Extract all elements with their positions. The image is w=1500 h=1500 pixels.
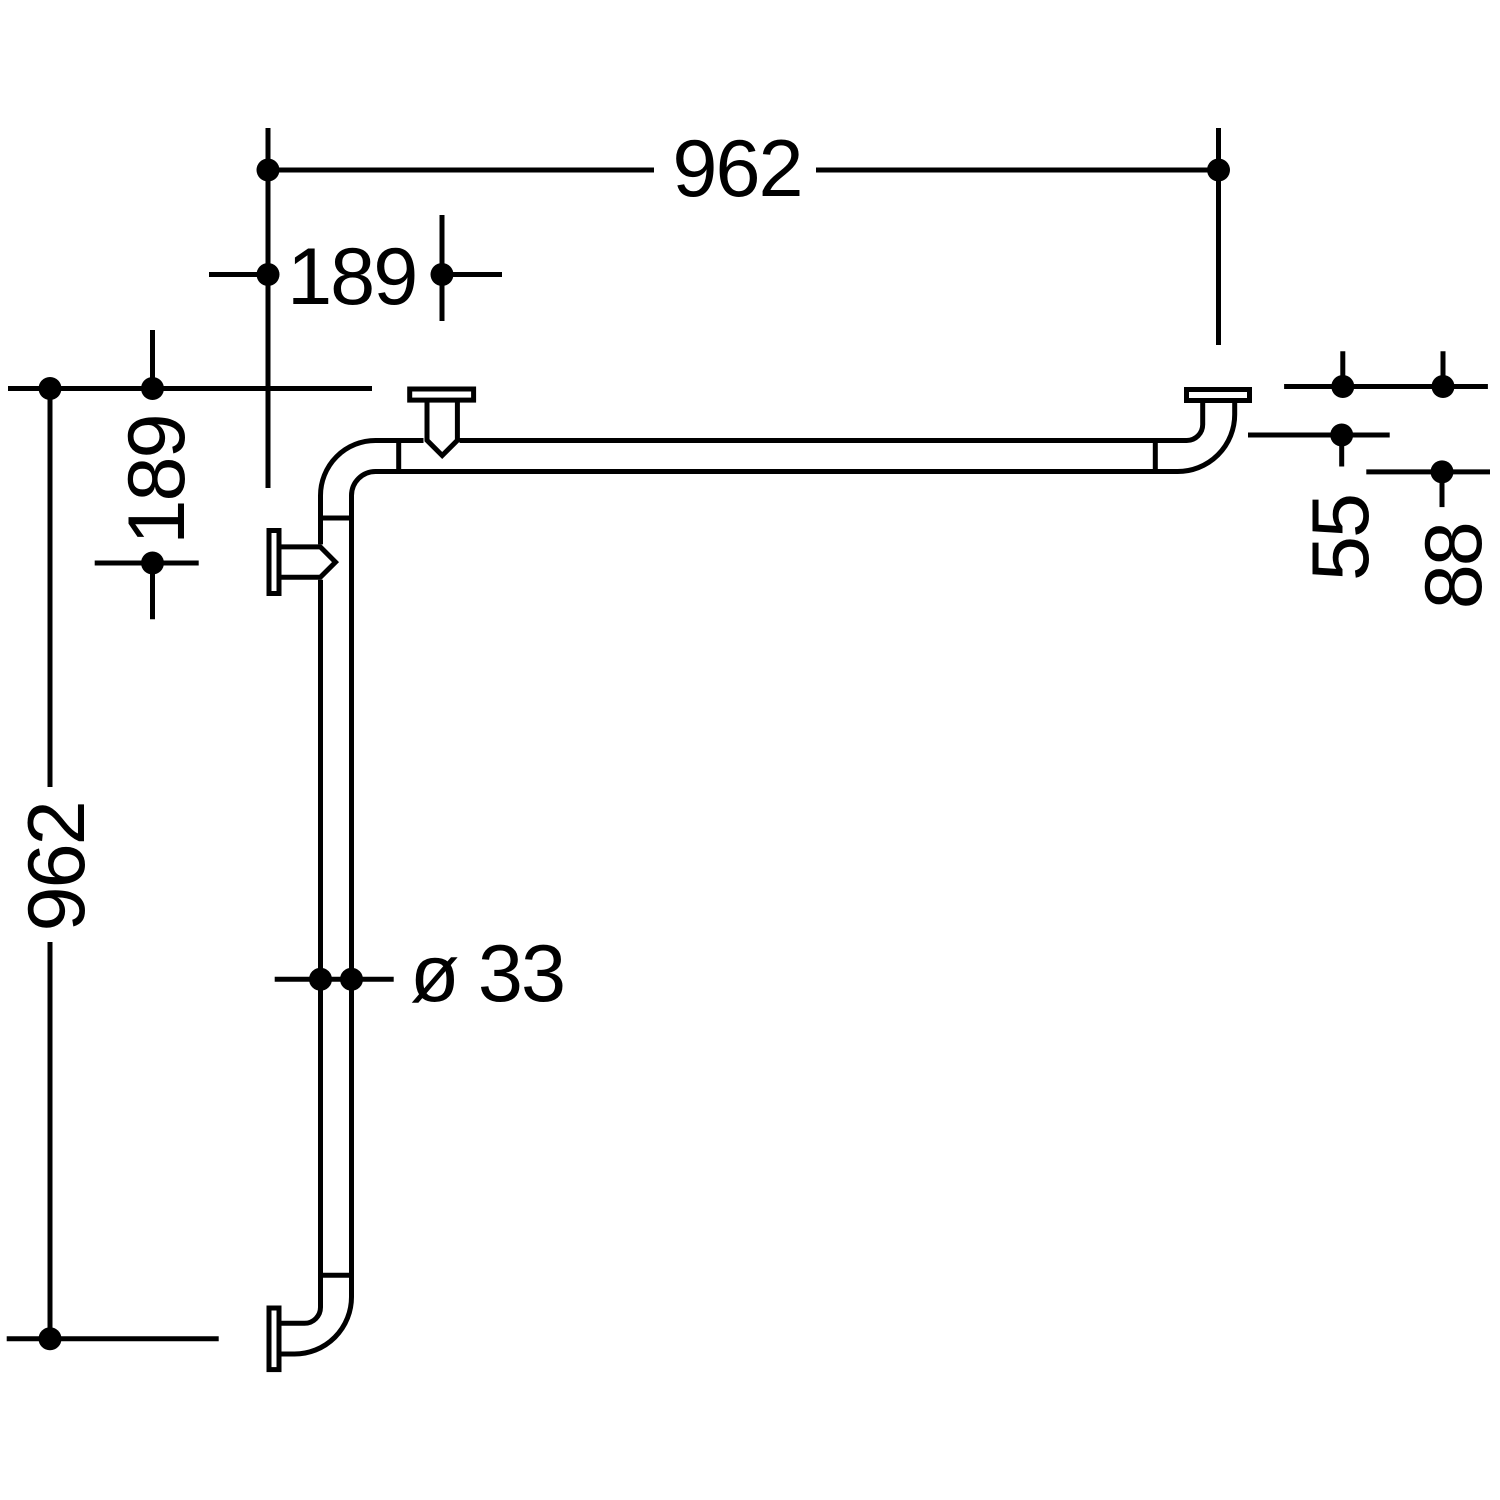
dimension line 962 horizontal top	[268, 168, 1219, 173]
value label 88	[1409, 523, 1499, 609]
extension line top anchor axis	[440, 215, 445, 321]
extension line left wall surface	[266, 128, 271, 488]
value label 189 left	[112, 415, 202, 544]
node top wall B	[141, 377, 164, 400]
node 55	[1330, 424, 1353, 447]
right end wall plate	[1187, 390, 1250, 401]
side anchor pin shaft	[279, 547, 336, 577]
node 88	[1431, 460, 1454, 483]
dimension line 55	[1248, 433, 1390, 438]
value label 962 left	[12, 802, 102, 931]
node top wall A	[39, 377, 62, 400]
dimension line dia 33	[275, 977, 394, 982]
side anchor wall plate	[269, 531, 279, 594]
node right wall A	[1331, 375, 1354, 398]
top anchor wall plate	[410, 389, 474, 400]
node 962-left bottom	[39, 1327, 62, 1350]
bottom end wall plate	[269, 1308, 279, 1370]
tube joint line at corner horizontal	[396, 441, 401, 472]
ticks above right wall nodes	[1343, 351, 1443, 380]
tick above top wall node B	[150, 330, 155, 389]
right wall construction line	[1284, 384, 1488, 389]
value label 55	[1296, 495, 1386, 581]
node side anchor axis	[141, 552, 164, 575]
corner elbow inner arc and vertical tube right edge with bottom elbow outer arc	[282, 472, 376, 1355]
bottom wall construction line	[7, 1336, 219, 1341]
extension line right tube-end axis	[1216, 128, 1221, 345]
tube joint line bottom end	[321, 1273, 352, 1278]
side anchor axis line	[95, 561, 199, 566]
svg-text:ø 33: ø 33	[410, 929, 564, 1019]
svg-text:962: 962	[12, 802, 102, 931]
node 189-top left	[257, 263, 280, 286]
node right wall B	[1432, 375, 1455, 398]
top wall construction line	[8, 386, 372, 391]
node 962-top right	[1207, 159, 1230, 182]
node dia33 left	[309, 968, 332, 991]
top anchor pin shaft	[427, 400, 457, 456]
svg-text:189: 189	[112, 415, 202, 544]
tube joint line at corner vertical	[321, 516, 352, 521]
dimension line 88	[1366, 469, 1490, 474]
node 189-top right	[431, 263, 454, 286]
tube joint line right end	[1153, 441, 1158, 472]
corner elbow outer arc and vertical tube left edge with bottom elbow inner arc	[282, 441, 424, 1324]
node 962-top left	[257, 159, 280, 182]
horizontal tube top edge with right elbow inner arc	[460, 403, 1203, 441]
svg-text:88: 88	[1409, 523, 1499, 609]
tick below 88 node	[1440, 472, 1445, 507]
tick below side anchor axis node	[150, 563, 155, 619]
horizontal tube bottom edge with right elbow outer arc	[376, 403, 1235, 472]
dimension line 962 vertical left	[48, 389, 53, 1339]
dimension ticks 189 horizontal	[209, 272, 502, 277]
tick below 55 node	[1339, 435, 1344, 467]
svg-text:55: 55	[1296, 495, 1386, 581]
svg-text:189: 189	[287, 232, 416, 322]
svg-text:962: 962	[672, 124, 801, 214]
node dia33 right	[340, 968, 363, 991]
